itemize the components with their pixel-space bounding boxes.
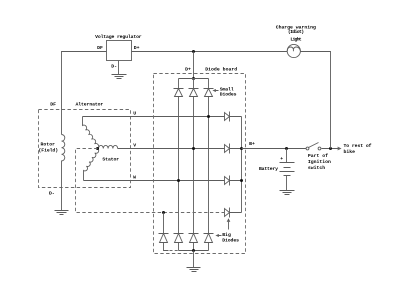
wire phase vertical 1: [178, 97, 180, 234]
svg-text:Diodes: Diodes: [222, 237, 239, 243]
svg-text:Alternator: Alternator: [76, 101, 104, 107]
big diode D6 (W+): [225, 176, 242, 186]
big diode D11 (W-): [204, 234, 214, 243]
big diode D9 (U-): [174, 234, 184, 243]
svg-text:Light: Light: [290, 36, 301, 42]
wire switch to junction: [322, 148, 340, 150]
wire regulator D- to ground: [118, 61, 120, 75]
switch S1 ignition: [306, 147, 309, 150]
stator winding middle (V phase): [98, 145, 118, 148]
svg-text:+: +: [280, 157, 283, 162]
svg-text:W: W: [133, 175, 136, 181]
wire V phase: [118, 148, 225, 150]
arrow to rest of bike: [338, 147, 341, 150]
node center tap to Y diode: [162, 211, 165, 214]
wire board ground: [193, 251, 195, 268]
voltage regulator U1: [107, 41, 132, 61]
node ground bus: [192, 249, 195, 252]
wire DF: regulator to rotor: [62, 52, 107, 135]
ground (regulator): [112, 75, 127, 79]
svg-text:bike: bike: [344, 149, 356, 155]
svg-text:D+: D+: [134, 45, 140, 51]
svg-text:D-: D-: [111, 64, 117, 70]
lamp: charge warning light: [287, 44, 300, 57]
wire D+ drop to diode board: [193, 52, 195, 79]
node U-phase tap: [207, 115, 210, 118]
small diode D2: [189, 89, 199, 97]
node B+ bus at V: [240, 147, 243, 150]
diode board enclosure: [154, 74, 246, 254]
node lamp/switch junction: [329, 147, 332, 150]
wire lamp branch: [301, 52, 331, 149]
svg-text:Stator: Stator: [102, 157, 119, 163]
svg-text:To rest of: To rest of: [344, 143, 372, 149]
wire rotor to ground: [61, 161, 63, 211]
svg-text:V: V: [133, 143, 136, 149]
wire U phase: [83, 116, 225, 118]
wire B+ bus: [241, 117, 243, 213]
wire W phase: [84, 180, 225, 182]
svg-text:Ignition: Ignition: [308, 159, 331, 165]
arrow to big diodes (left): [217, 234, 222, 236]
node: stator center tap: [96, 147, 99, 150]
wire D+: regulator to lamp: [132, 51, 288, 53]
stator winding lower (W phase): [84, 149, 99, 181]
svg-text:U: U: [133, 110, 136, 116]
alternator enclosure: [39, 110, 131, 188]
svg-text:Part of: Part of: [308, 153, 328, 159]
wire Y diode drop: [163, 213, 165, 234]
svg-text:D-: D-: [49, 191, 55, 197]
node W-phase tap: [177, 179, 180, 182]
svg-text:B+: B+: [249, 141, 255, 147]
svg-text:Battery: Battery: [259, 166, 278, 172]
big diode D8 (Y-): [159, 234, 169, 243]
ground (diode board): [187, 268, 201, 272]
node: small diode bus: [192, 77, 195, 80]
big diode D7 (Y+): [225, 208, 242, 218]
small diode D1: [174, 89, 184, 97]
svg-text:(Field): (Field): [39, 147, 59, 153]
svg-text:(Idiot): (Idiot): [288, 29, 304, 35]
wire phase vertical 2: [193, 97, 195, 234]
ground (rotor): [55, 211, 69, 215]
big diode D4 (U+): [225, 112, 242, 122]
svg-text:switch: switch: [308, 165, 325, 171]
node battery tap: [285, 147, 288, 150]
dashed center-tap wire: [76, 149, 225, 213]
stator winding upper (U phase): [83, 117, 99, 149]
small diode D3: [204, 89, 214, 97]
arrow to Y+ diode (up): [227, 219, 230, 229]
node B+ bus at W: [240, 179, 243, 182]
svg-text:Diodes: Diodes: [220, 91, 237, 97]
svg-text:D+: D+: [185, 67, 191, 73]
big diode D5 (V+): [225, 144, 242, 154]
svg-text:DF: DF: [97, 45, 103, 51]
svg-text:Big: Big: [222, 232, 231, 238]
wire ground bus: [164, 243, 169, 251]
svg-text:Rotor: Rotor: [41, 141, 56, 147]
rotor (field) winding L1: [62, 135, 65, 161]
node: D+ branch: [192, 50, 195, 53]
wire B+ out: [242, 148, 307, 150]
wire small diode bus: [179, 79, 209, 89]
ground (battery): [280, 191, 295, 195]
battery B1: [280, 149, 295, 191]
big diode D10 (V-): [189, 234, 199, 243]
svg-text:DF: DF: [50, 101, 56, 107]
node V-phase tap: [192, 147, 195, 150]
arrow to small diodes: [214, 89, 219, 91]
wire ground bus solid: [179, 243, 209, 251]
wire ground bus dashed segment: [170, 250, 179, 252]
wire phase vertical 3: [208, 97, 210, 234]
svg-text:Diode board: Diode board: [205, 67, 237, 73]
svg-text:Voltage regulator: Voltage regulator: [95, 34, 142, 40]
